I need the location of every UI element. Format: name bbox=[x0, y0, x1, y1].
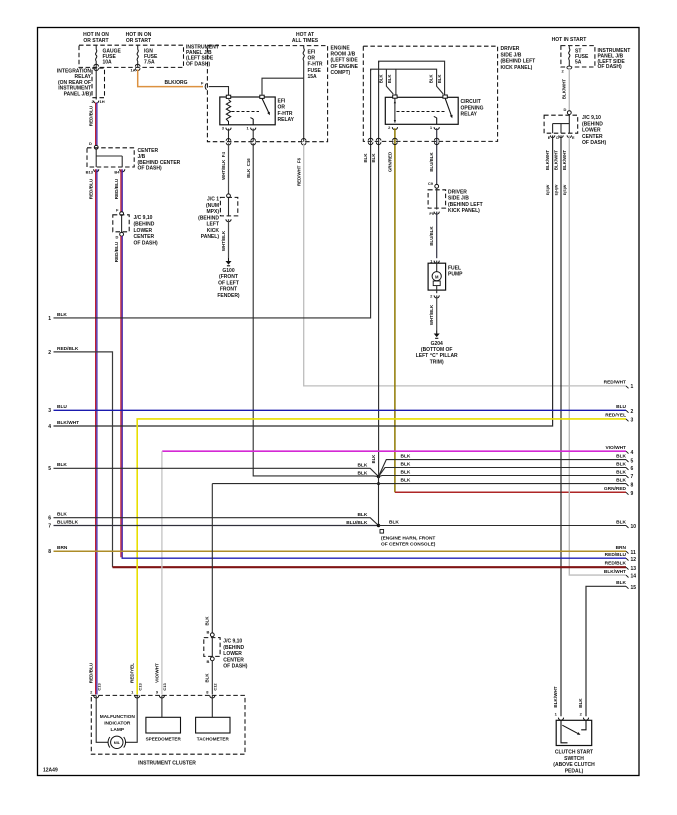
connector 1 below circuit opening relay contact bbox=[430, 125, 439, 130]
wire BLK/WHT from ST fuse to J/C 9,10 bbox=[568, 69, 570, 111]
svg-text:PANEL): PANEL) bbox=[201, 234, 220, 240]
ground G100 bbox=[228, 258, 230, 261]
label DRIVER SIDE J/B (BEHIND LEFT KICK PANEL) small bbox=[448, 190, 483, 215]
terminal 11 right edge bbox=[626, 550, 636, 556]
J/C 9,10 (behind lower center of dash) dashed box, left bbox=[113, 215, 129, 232]
wire BLK row 5 right bbox=[379, 460, 627, 477]
svg-text:BLK: BLK bbox=[387, 74, 392, 83]
svg-text:E(S)W: E(S)W bbox=[563, 184, 567, 195]
svg-text:INSTRUMENT CLUSTER: INSTRUMENT CLUSTER bbox=[138, 761, 196, 767]
svg-text:15: 15 bbox=[631, 585, 637, 591]
wire through left J/C 9,10 bbox=[121, 216, 123, 233]
wire BLK row 7 right bbox=[379, 476, 627, 477]
wire BLK row 6 right bbox=[379, 468, 627, 477]
connector D at right J/C 9,10 top bbox=[564, 107, 572, 115]
svg-text:MIL: MIL bbox=[114, 741, 121, 745]
connector C16 at engine room J/B bottom bbox=[251, 139, 256, 141]
connector B4 at center J/B bottom right bbox=[114, 169, 124, 174]
svg-text:(FRONT: (FRONT bbox=[219, 274, 238, 280]
integration relay (on rear of instrument panel J/B) dashed box bbox=[92, 68, 105, 98]
wire BLK/WHT col3 (to row 14) bbox=[569, 135, 626, 575]
wire RED/BLK row 13 horizontal bbox=[113, 566, 627, 568]
svg-text:CENTER: CENTER bbox=[134, 234, 155, 240]
J/C 9,10 dashed box (bottom) bbox=[204, 638, 220, 657]
J/C 9,10 dashed box (right) bbox=[544, 115, 578, 133]
svg-text:BLK/WHT: BLK/WHT bbox=[57, 420, 79, 426]
svg-text:6: 6 bbox=[48, 516, 51, 522]
terminal 7 right edge bbox=[626, 474, 634, 480]
svg-text:SIDE J/B: SIDE J/B bbox=[448, 196, 469, 202]
svg-text:BLK: BLK bbox=[401, 461, 411, 467]
svg-text:RELAY: RELAY bbox=[278, 117, 295, 123]
wire RED/BLU from integration relay to center J/B bbox=[96, 103, 97, 146]
svg-text:1H: 1H bbox=[100, 99, 105, 104]
label ENGINE ROOM J/B (LEFT SIDE OF ENGINE COMPT) bbox=[331, 46, 359, 76]
svg-text:OR START: OR START bbox=[126, 38, 151, 44]
svg-text:RED/BLK: RED/BLK bbox=[57, 346, 79, 352]
wire BLK from C16 down and right to splice bbox=[253, 143, 378, 476]
speedometer bbox=[146, 717, 181, 733]
splice junction J1 bbox=[377, 475, 380, 478]
connector B at tach J/C 9,10 bottom bbox=[207, 657, 215, 664]
connector D at J/C 9,10 bottom bbox=[116, 232, 124, 239]
svg-text:B4: B4 bbox=[114, 170, 120, 175]
svg-text:VIO/WHT: VIO/WHT bbox=[154, 663, 159, 683]
wire BLU/BLK to fuel pump bbox=[436, 212, 438, 259]
driver side J/B small dashed box bbox=[428, 190, 446, 208]
svg-text:BLK: BLK bbox=[57, 512, 67, 518]
terminal 3 right edge bbox=[626, 418, 634, 424]
terminal 6 right edge bbox=[626, 466, 634, 472]
svg-text:LAMP: LAMP bbox=[111, 727, 125, 733]
svg-text:J/C 1: J/C 1 bbox=[207, 197, 219, 203]
svg-text:LOWER: LOWER bbox=[134, 228, 153, 234]
svg-text:BLK: BLK bbox=[57, 462, 67, 468]
svg-text:OR: OR bbox=[308, 56, 316, 62]
instrument cluster dashed box bbox=[91, 695, 245, 754]
svg-text:RED/BLU: RED/BLU bbox=[89, 662, 94, 683]
svg-text:RED/WHT F6: RED/WHT F6 bbox=[296, 157, 301, 186]
svg-text:BLK: BLK bbox=[357, 512, 367, 518]
connector 3 below EFI relay coil bbox=[222, 126, 231, 131]
connector F at engine room J/B left bbox=[201, 81, 207, 90]
label J/C 1 (NUM MPX) (BEHIND LEFT KICK PANEL) bbox=[198, 197, 219, 241]
svg-text:BLK: BLK bbox=[401, 478, 411, 484]
label G100 (FRONT OF LEFT FRONT FENDER) bbox=[217, 268, 240, 299]
connector F at J/C 9,10 top bbox=[116, 208, 124, 216]
svg-text:BLU: BLU bbox=[57, 404, 67, 410]
label INTEGRATION RELAY bbox=[57, 69, 92, 98]
svg-text:OR: OR bbox=[278, 105, 286, 111]
connector 1 at fuel pump bbox=[430, 259, 439, 264]
svg-text:7: 7 bbox=[631, 474, 634, 480]
wire BLK bus H2 inside driver side J/B bbox=[371, 69, 444, 94]
svg-text:RED/BLU: RED/BLU bbox=[89, 105, 94, 126]
svg-text:10A: 10A bbox=[103, 60, 113, 66]
svg-text:BLU/BLK: BLU/BLK bbox=[429, 226, 434, 246]
svg-text:5: 5 bbox=[48, 466, 51, 472]
svg-text:BLK: BLK bbox=[357, 463, 367, 469]
svg-text:M: M bbox=[435, 274, 439, 279]
wire BLK J/C 9,10 to tachometer bbox=[211, 661, 213, 695]
svg-text:RED/BLU: RED/BLU bbox=[114, 241, 119, 262]
svg-text:12A49: 12A49 bbox=[43, 768, 58, 774]
wire through integration relay bbox=[95, 67, 97, 99]
svg-text:2: 2 bbox=[631, 409, 634, 415]
svg-text:SPEEDOMETER: SPEEDOMETER bbox=[146, 737, 182, 742]
connector 2 below ST fuse bbox=[562, 66, 572, 73]
EFI relay coil bbox=[226, 100, 230, 125]
svg-text:OF DASH): OF DASH) bbox=[186, 61, 211, 67]
label J/C 9,10 (BEHIND LOWER CENTER OF DASH) right bbox=[582, 115, 607, 146]
connector at gauge fuse exit bbox=[94, 64, 99, 66]
wire BLU row (left 3 to right 2) bbox=[54, 409, 627, 411]
label MALFUNCTION INDICATOR LAMP bbox=[100, 714, 136, 733]
terminal 8 right edge bbox=[626, 482, 634, 488]
wire VIO/WHT row 4 right, corner down to speedometer bbox=[162, 451, 626, 694]
ground G204 bbox=[436, 331, 438, 334]
wire WHT/BLK from engine room J/B to J/C 1 bbox=[228, 143, 230, 194]
svg-text:RED/BLU: RED/BLU bbox=[605, 552, 627, 558]
connector F9 bbox=[429, 211, 439, 216]
svg-text:BLK/ORG: BLK/ORG bbox=[164, 80, 187, 86]
svg-text:ALL TIMES: ALL TIMES bbox=[292, 38, 319, 44]
svg-text:B: B bbox=[207, 659, 210, 664]
label G204 (BOTTOM OF LEFT C PILLAR TRIM) bbox=[416, 341, 458, 365]
svg-text:OF LEFT: OF LEFT bbox=[218, 280, 239, 286]
terminal 14 right edge bbox=[626, 574, 636, 580]
wires inside right J/C 9,10 bbox=[553, 115, 570, 134]
svg-text:G100: G100 bbox=[222, 268, 234, 274]
splice location marker bbox=[380, 530, 384, 534]
svg-text:B: B bbox=[207, 630, 210, 635]
connector at J/B bottom (GRN/RED) bbox=[393, 138, 398, 140]
wire BLK/WHT col1 (to row 4 left) bbox=[54, 135, 553, 426]
svg-text:C9: C9 bbox=[428, 181, 434, 186]
svg-text:BLK: BLK bbox=[401, 454, 411, 460]
svg-text:13: 13 bbox=[631, 566, 637, 572]
svg-text:E: E bbox=[548, 136, 551, 140]
svg-text:INDICATOR: INDICATOR bbox=[104, 720, 131, 726]
wire BLK row 10 right bbox=[379, 525, 627, 527]
svg-text:10: 10 bbox=[631, 524, 637, 530]
svg-text:4: 4 bbox=[631, 450, 634, 456]
svg-text:OF ENGINE: OF ENGINE bbox=[331, 64, 359, 70]
connector 2 below fuel pump bbox=[430, 290, 439, 298]
wire RED/BLU row 12 horizontal bbox=[122, 557, 627, 559]
label INSTRUMENT PANEL J/B (LEFT SIDE OF DASH) right bbox=[598, 48, 631, 70]
svg-text:OPENING: OPENING bbox=[461, 105, 484, 111]
svg-text:OF DASH): OF DASH) bbox=[598, 64, 623, 70]
EFI relay pin top-right bbox=[260, 95, 264, 98]
svg-text:(BEHIND LEFT: (BEHIND LEFT bbox=[501, 59, 536, 65]
svg-text:BLK: BLK bbox=[401, 469, 411, 475]
terminal 9 right edge bbox=[626, 491, 634, 497]
svg-text:PEDAL): PEDAL) bbox=[565, 768, 584, 774]
wire BLK bus H1 inside driver side J/B bbox=[379, 61, 445, 94]
svg-text:J/C 9,10: J/C 9,10 bbox=[223, 639, 242, 645]
svg-text:7.5A: 7.5A bbox=[144, 60, 155, 66]
wire GRN/RED row 9 horizontal bbox=[395, 491, 626, 493]
svg-text:EFI: EFI bbox=[278, 99, 286, 105]
connector at J/B bottom (leg a) bbox=[368, 138, 373, 140]
svg-text:BLK: BLK bbox=[379, 74, 384, 83]
wire RED/BLK row 2 left, corner down to row 13 bbox=[54, 352, 113, 567]
svg-text:BLU/BLK: BLU/BLK bbox=[429, 152, 434, 172]
wire BLK vertical splice J1 to splice J2 bbox=[378, 477, 380, 526]
svg-text:BLK/WHT: BLK/WHT bbox=[562, 79, 567, 100]
svg-text:D: D bbox=[89, 141, 92, 146]
svg-text:DRIVER: DRIVER bbox=[448, 190, 467, 196]
wire BLK/ORG from ign fuse to engine room J/B bbox=[138, 70, 203, 87]
svg-text:1: 1 bbox=[48, 316, 51, 322]
tachometer wire bbox=[211, 695, 213, 717]
driver side J/B (behind left kick panel) dashed box bbox=[363, 46, 497, 141]
svg-text:BLK: BLK bbox=[616, 519, 626, 525]
svg-text:(NUM: (NUM bbox=[206, 203, 219, 209]
terminal 15 right edge bbox=[626, 585, 636, 591]
center J/B (behind center of dash) dashed box bbox=[87, 148, 134, 167]
svg-text:BLK C16: BLK C16 bbox=[246, 158, 251, 178]
svg-text:OF DASH): OF DASH) bbox=[134, 241, 159, 247]
wire BLK drop to relay pin 5 (diagonal) bbox=[386, 69, 393, 94]
fuel pump bbox=[428, 261, 446, 291]
J/C 1 (behind left kick panel) dashed box bbox=[220, 197, 237, 216]
label J/C 9,10 (BEHIND LOWER CENTER OF DASH) bbox=[134, 215, 159, 247]
wire RED/BLU column B continues to row 12 corner bbox=[121, 236, 122, 558]
svg-text:RED/WHT: RED/WHT bbox=[604, 380, 626, 386]
svg-text:TRIM): TRIM) bbox=[430, 359, 444, 365]
svg-text:BLK: BLK bbox=[616, 453, 626, 459]
svg-text:D: D bbox=[564, 107, 567, 112]
wire BLK row 6 left to splice J2 bbox=[54, 518, 379, 526]
node HOT AT ALL TIMES bbox=[292, 32, 319, 44]
svg-text:BRN: BRN bbox=[57, 545, 68, 551]
circuit opening relay coil element bbox=[394, 98, 396, 122]
svg-text:OF DASH): OF DASH) bbox=[138, 166, 163, 172]
svg-text:B13: B13 bbox=[86, 170, 94, 175]
svg-text:RED/BLK: RED/BLK bbox=[605, 561, 627, 567]
connector E at J/C bottom col1 bbox=[548, 135, 555, 139]
connector F6 at engine room J/B bottom bbox=[301, 139, 306, 141]
connector at J/C 1 bottom bbox=[226, 219, 231, 222]
svg-text:RED/BLU: RED/BLU bbox=[114, 178, 119, 199]
svg-text:F-HTR: F-HTR bbox=[308, 62, 323, 68]
svg-text:J/C 9,10: J/C 9,10 bbox=[134, 215, 153, 221]
svg-text:KICK PANEL): KICK PANEL) bbox=[501, 65, 533, 71]
svg-text:PUMP: PUMP bbox=[448, 272, 463, 278]
svg-text:BLU/BLK: BLU/BLK bbox=[57, 519, 79, 525]
wire BLU/BLK relay to small driver side J/B bbox=[436, 128, 438, 184]
svg-text:EFI: EFI bbox=[308, 50, 316, 56]
svg-text:BLK: BLK bbox=[616, 469, 626, 475]
label (ENGINE HARN, FRONT OF CENTER CONSOLE) bbox=[381, 536, 436, 548]
svg-text:KICK: KICK bbox=[207, 228, 220, 234]
switch CLUTCH START bbox=[556, 720, 592, 745]
svg-text:BLK: BLK bbox=[57, 312, 67, 318]
circuit opening relay pin top-right bbox=[443, 95, 447, 98]
connector B13 at center J/B bottom left bbox=[86, 169, 99, 174]
terminal 12 right edge bbox=[626, 557, 636, 563]
svg-text:BLK: BLK bbox=[616, 580, 626, 586]
fuse IGN 7.5A bbox=[137, 45, 158, 67]
wire BLU/BLK row 7 left to splice J2 bbox=[54, 525, 379, 527]
connector at J/B bottom (leg b) bbox=[376, 138, 381, 140]
connector D at J/C bottom col2 bbox=[556, 135, 563, 139]
svg-text:WHT/BLK F4: WHT/BLK F4 bbox=[221, 152, 226, 180]
EFI relay switch arm bbox=[262, 98, 271, 115]
wire EFI relay contact to C16 exit bbox=[252, 129, 254, 142]
svg-text:SWITCH: SWITCH bbox=[564, 756, 584, 762]
svg-text:15A: 15A bbox=[308, 74, 318, 80]
junction row 8 tap bbox=[377, 482, 380, 485]
svg-text:ROOM J/B: ROOM J/B bbox=[331, 52, 356, 58]
wire RED/WHT from F6 to right edge row 1 bbox=[304, 143, 626, 386]
node HOT IN ON OR START (ign fuse feed) bbox=[126, 32, 152, 44]
wire through bottom J/C 9,10 bbox=[211, 637, 213, 657]
svg-text:3: 3 bbox=[48, 408, 51, 414]
wire WHT/BLK fuel pump to G204 bbox=[436, 295, 438, 330]
connector 1 below EFI relay contact bbox=[246, 126, 255, 131]
svg-text:RED/YEL: RED/YEL bbox=[605, 413, 626, 419]
svg-text:BLU: BLU bbox=[616, 404, 626, 410]
connector F4 at engine room J/B bottom bbox=[226, 139, 231, 141]
svg-text:E(H)W: E(H)W bbox=[554, 184, 558, 195]
terminal 2 right edge bbox=[626, 409, 634, 415]
svg-text:LOWER: LOWER bbox=[582, 128, 601, 134]
relay CIRCUIT OPENING bbox=[385, 97, 458, 124]
wire from connector F to EFI relay coil pin bbox=[209, 87, 229, 95]
svg-text:CLUTCH START: CLUTCH START bbox=[555, 750, 593, 756]
svg-text:BLK/WHT: BLK/WHT bbox=[604, 569, 626, 575]
wire RED/BLU column B (center J/B to J/C 9,10) bbox=[121, 169, 122, 212]
svg-text:BLK/WHT: BLK/WHT bbox=[545, 150, 550, 171]
fuse GAUGE 10A bbox=[96, 45, 122, 67]
wire BLK row 8 (tachometer ground) bbox=[212, 483, 626, 485]
svg-text:LOWER: LOWER bbox=[223, 651, 242, 657]
svg-text:BLK: BLK bbox=[616, 477, 626, 483]
svg-text:LEFT “C” PILLAR: LEFT “C” PILLAR bbox=[416, 353, 458, 359]
terminal 13 right edge bbox=[626, 566, 636, 572]
svg-text:SIDE J/B: SIDE J/B bbox=[501, 52, 522, 58]
connector at J/C 1 top bbox=[227, 194, 231, 198]
svg-text:2: 2 bbox=[48, 350, 51, 356]
wire GRN/RED from circuit opening relay to row 9 bbox=[394, 128, 396, 492]
svg-text:MALFUNCTION: MALFUNCTION bbox=[100, 714, 136, 720]
label EFI OR F-HTR RELAY bbox=[278, 99, 295, 124]
svg-text:GRN/RED: GRN/RED bbox=[387, 152, 392, 172]
svg-text:4: 4 bbox=[48, 424, 51, 430]
svg-text:5A: 5A bbox=[575, 60, 582, 66]
connector D at center J/B top bbox=[89, 141, 98, 149]
svg-text:WHT/BLK: WHT/BLK bbox=[429, 304, 434, 325]
svg-text:BLK: BLK bbox=[205, 616, 210, 626]
svg-text:BLK: BLK bbox=[371, 153, 376, 163]
svg-text:C13: C13 bbox=[162, 683, 167, 691]
wire BLK row 15, corner down to clutch switch bbox=[586, 586, 626, 716]
svg-text:5: 5 bbox=[631, 458, 634, 464]
svg-text:ENGINE: ENGINE bbox=[331, 46, 351, 52]
svg-text:OF CENTER CONSOLE): OF CENTER CONSOLE) bbox=[381, 542, 436, 548]
wire BLK long vertical (H1 left leg to splice) bbox=[378, 61, 380, 475]
svg-text:8: 8 bbox=[631, 482, 634, 488]
svg-text:11: 11 bbox=[631, 550, 637, 556]
svg-text:C13: C13 bbox=[96, 683, 101, 691]
wire from EFI fuse junction down to F6 exit bbox=[303, 78, 305, 142]
speedometer wire bbox=[161, 695, 163, 717]
label INSTRUMENT PANEL J/B (LEFT SIDE OF DASH) bbox=[186, 45, 219, 68]
connector C13 at cluster (VIO/WHT) bbox=[156, 683, 167, 698]
svg-text:RED/YEL: RED/YEL bbox=[130, 663, 135, 683]
svg-text:12: 12 bbox=[631, 557, 637, 563]
connector B at tach J/C 9,10 top bbox=[207, 630, 215, 637]
svg-text:VIO/WHT: VIO/WHT bbox=[605, 445, 626, 451]
wires inside center J/B bbox=[96, 149, 122, 167]
svg-text:(BEHIND: (BEHIND bbox=[582, 121, 603, 127]
relay EFI OR F-HTR bbox=[220, 97, 275, 125]
svg-text:F9: F9 bbox=[429, 211, 434, 216]
malfunction indicator lamp wiring bbox=[96, 695, 137, 742]
circuit opening relay switch arm bbox=[445, 98, 454, 119]
svg-text:BLK/WHT: BLK/WHT bbox=[562, 150, 567, 171]
svg-text:MPX): MPX) bbox=[207, 209, 220, 215]
label CLUTCH START SWITCH (ABOVE CLUTCH PEDAL) bbox=[553, 750, 595, 775]
connector C13 at cluster (RED/BLU) bbox=[90, 683, 101, 698]
svg-text:FUSE: FUSE bbox=[308, 68, 322, 74]
circuit opening relay switch contact bbox=[434, 116, 437, 124]
terminal 4 right edge bbox=[626, 450, 634, 456]
svg-text:BLK/WHT: BLK/WHT bbox=[553, 686, 558, 707]
label J/C 9,10 (BEHIND LOWER CENTER OF DASH) bottom bbox=[223, 639, 248, 670]
node HOT IN ON OR START (gauge fuse feed) bbox=[83, 32, 109, 44]
svg-text:D: D bbox=[116, 235, 119, 240]
svg-text:BLK: BLK bbox=[371, 455, 376, 464]
wire through J/C 1 bbox=[228, 198, 230, 217]
svg-text:G204: G204 bbox=[431, 341, 443, 347]
instrument panel J/B dashed box (right) bbox=[561, 46, 595, 67]
svg-text:BLK: BLK bbox=[437, 74, 442, 83]
svg-text:9: 9 bbox=[631, 491, 634, 497]
svg-text:14: 14 bbox=[631, 574, 637, 580]
svg-text:CENTER: CENTER bbox=[582, 134, 603, 140]
svg-text:(ENGINE HARN, FRONT: (ENGINE HARN, FRONT bbox=[381, 536, 435, 542]
wire from EFI fuse to relay switch bbox=[262, 78, 304, 95]
splice junction J2 bbox=[377, 524, 380, 527]
wire BLK row 5 left to splice J1 bbox=[54, 468, 379, 476]
svg-text:BLK: BLK bbox=[429, 74, 434, 83]
fuse EFI OR F-HTR 15A bbox=[303, 46, 323, 80]
wire BRN row (left 8 to right 11) bbox=[54, 550, 627, 552]
connector 2 below circuit opening relay coil bbox=[388, 125, 397, 130]
engine room J/B dashed box bbox=[207, 46, 327, 142]
svg-text:8: 8 bbox=[48, 549, 51, 555]
svg-text:D: D bbox=[556, 136, 559, 140]
circuit opening relay link (dashed) bbox=[397, 111, 447, 113]
svg-text:CIRCUIT: CIRCUIT bbox=[461, 99, 481, 105]
svg-text:F-HTR: F-HTR bbox=[278, 111, 293, 117]
wire through small driver side J/B bbox=[436, 188, 438, 210]
wire RED/BLU column A (to instrument cluster) bbox=[96, 169, 97, 694]
svg-text:FENDER): FENDER) bbox=[217, 293, 240, 299]
svg-text:RED/BLU: RED/BLU bbox=[89, 178, 94, 199]
svg-text:C12: C12 bbox=[212, 683, 217, 691]
svg-text:1: 1 bbox=[631, 384, 634, 390]
instrument panel J/B (left side of dash) dashed box bbox=[79, 45, 184, 67]
terminal 5 right edge bbox=[626, 458, 634, 464]
svg-text:BLK: BLK bbox=[363, 153, 368, 163]
wire BLK drop to relay pin 5 (straight) bbox=[395, 69, 397, 94]
svg-text:FRONT: FRONT bbox=[220, 287, 237, 293]
